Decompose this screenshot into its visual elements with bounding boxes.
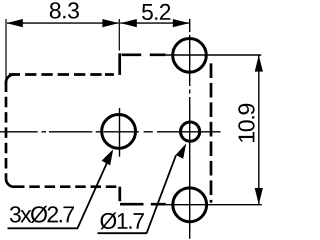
leader Ø1.7 underline: [98, 232, 148, 234]
part outline step at top (solid dash): [118, 53, 121, 75]
hole small Ø1.7: [181, 122, 200, 141]
crosshair top hole / extension line top-right: [166, 54, 261, 56]
hole top-right Ø2.7: [173, 39, 207, 73]
leader arrow to left hole: [102, 149, 114, 165]
label Ø1.7: [100, 213, 144, 230]
leader 3xØ2.7 diagonal: [78, 155, 111, 228]
arrow 8.3 left: [6, 19, 22, 27]
hole bottom-right Ø2.7: [173, 188, 207, 222]
vertical centerline through right holes: [189, 19, 191, 239]
part outline left edge (dashed): [5, 82, 8, 179]
label 8.3: [50, 2, 79, 18]
part outline top-right edge (dashed): [122, 53, 171, 56]
part outline bottom-right edge (dashed): [120, 203, 172, 206]
dimension line 5.2: [120, 22, 189, 24]
leader 3xØ2.7 underline: [8, 227, 79, 229]
extension line middle (x=119.3): [118, 19, 120, 51]
part outline top-left rounded corner: [6, 75, 14, 83]
arrow 5.2 left: [120, 19, 136, 27]
hole left Ø2.7: [102, 114, 136, 148]
dimension line 8.3: [7, 22, 119, 24]
crosshair left hole: [119, 108, 121, 157]
arrow 10.9 top: [255, 55, 263, 71]
part outline top edge (dashed): [9, 73, 114, 76]
horizontal centerline through left hole and small hole: [0, 131, 221, 133]
arrow 5.2 right: [173, 19, 189, 27]
part outline bottom-left rounded corner: [6, 179, 14, 187]
part outline step at bottom (solid dash): [118, 187, 121, 202]
part outline right edge (dashed): [210, 63, 213, 202]
label 5.2: [142, 4, 170, 20]
label 10.9 (rotated): [238, 104, 254, 142]
leader Ø1.7 diagonal: [147, 155, 176, 233]
dimension line 10.9: [258, 55, 260, 204]
crosshair bottom hole / extension line bottom-right: [166, 204, 262, 206]
extension line left (x=6): [5, 19, 7, 80]
arrow 10.9 bottom: [255, 188, 263, 204]
leader arrow to small hole: [176, 143, 187, 158]
label 3xØ2.7: [10, 206, 74, 223]
arrow 8.3 right: [102, 19, 118, 27]
part outline bottom edge (dashed): [14, 185, 120, 188]
